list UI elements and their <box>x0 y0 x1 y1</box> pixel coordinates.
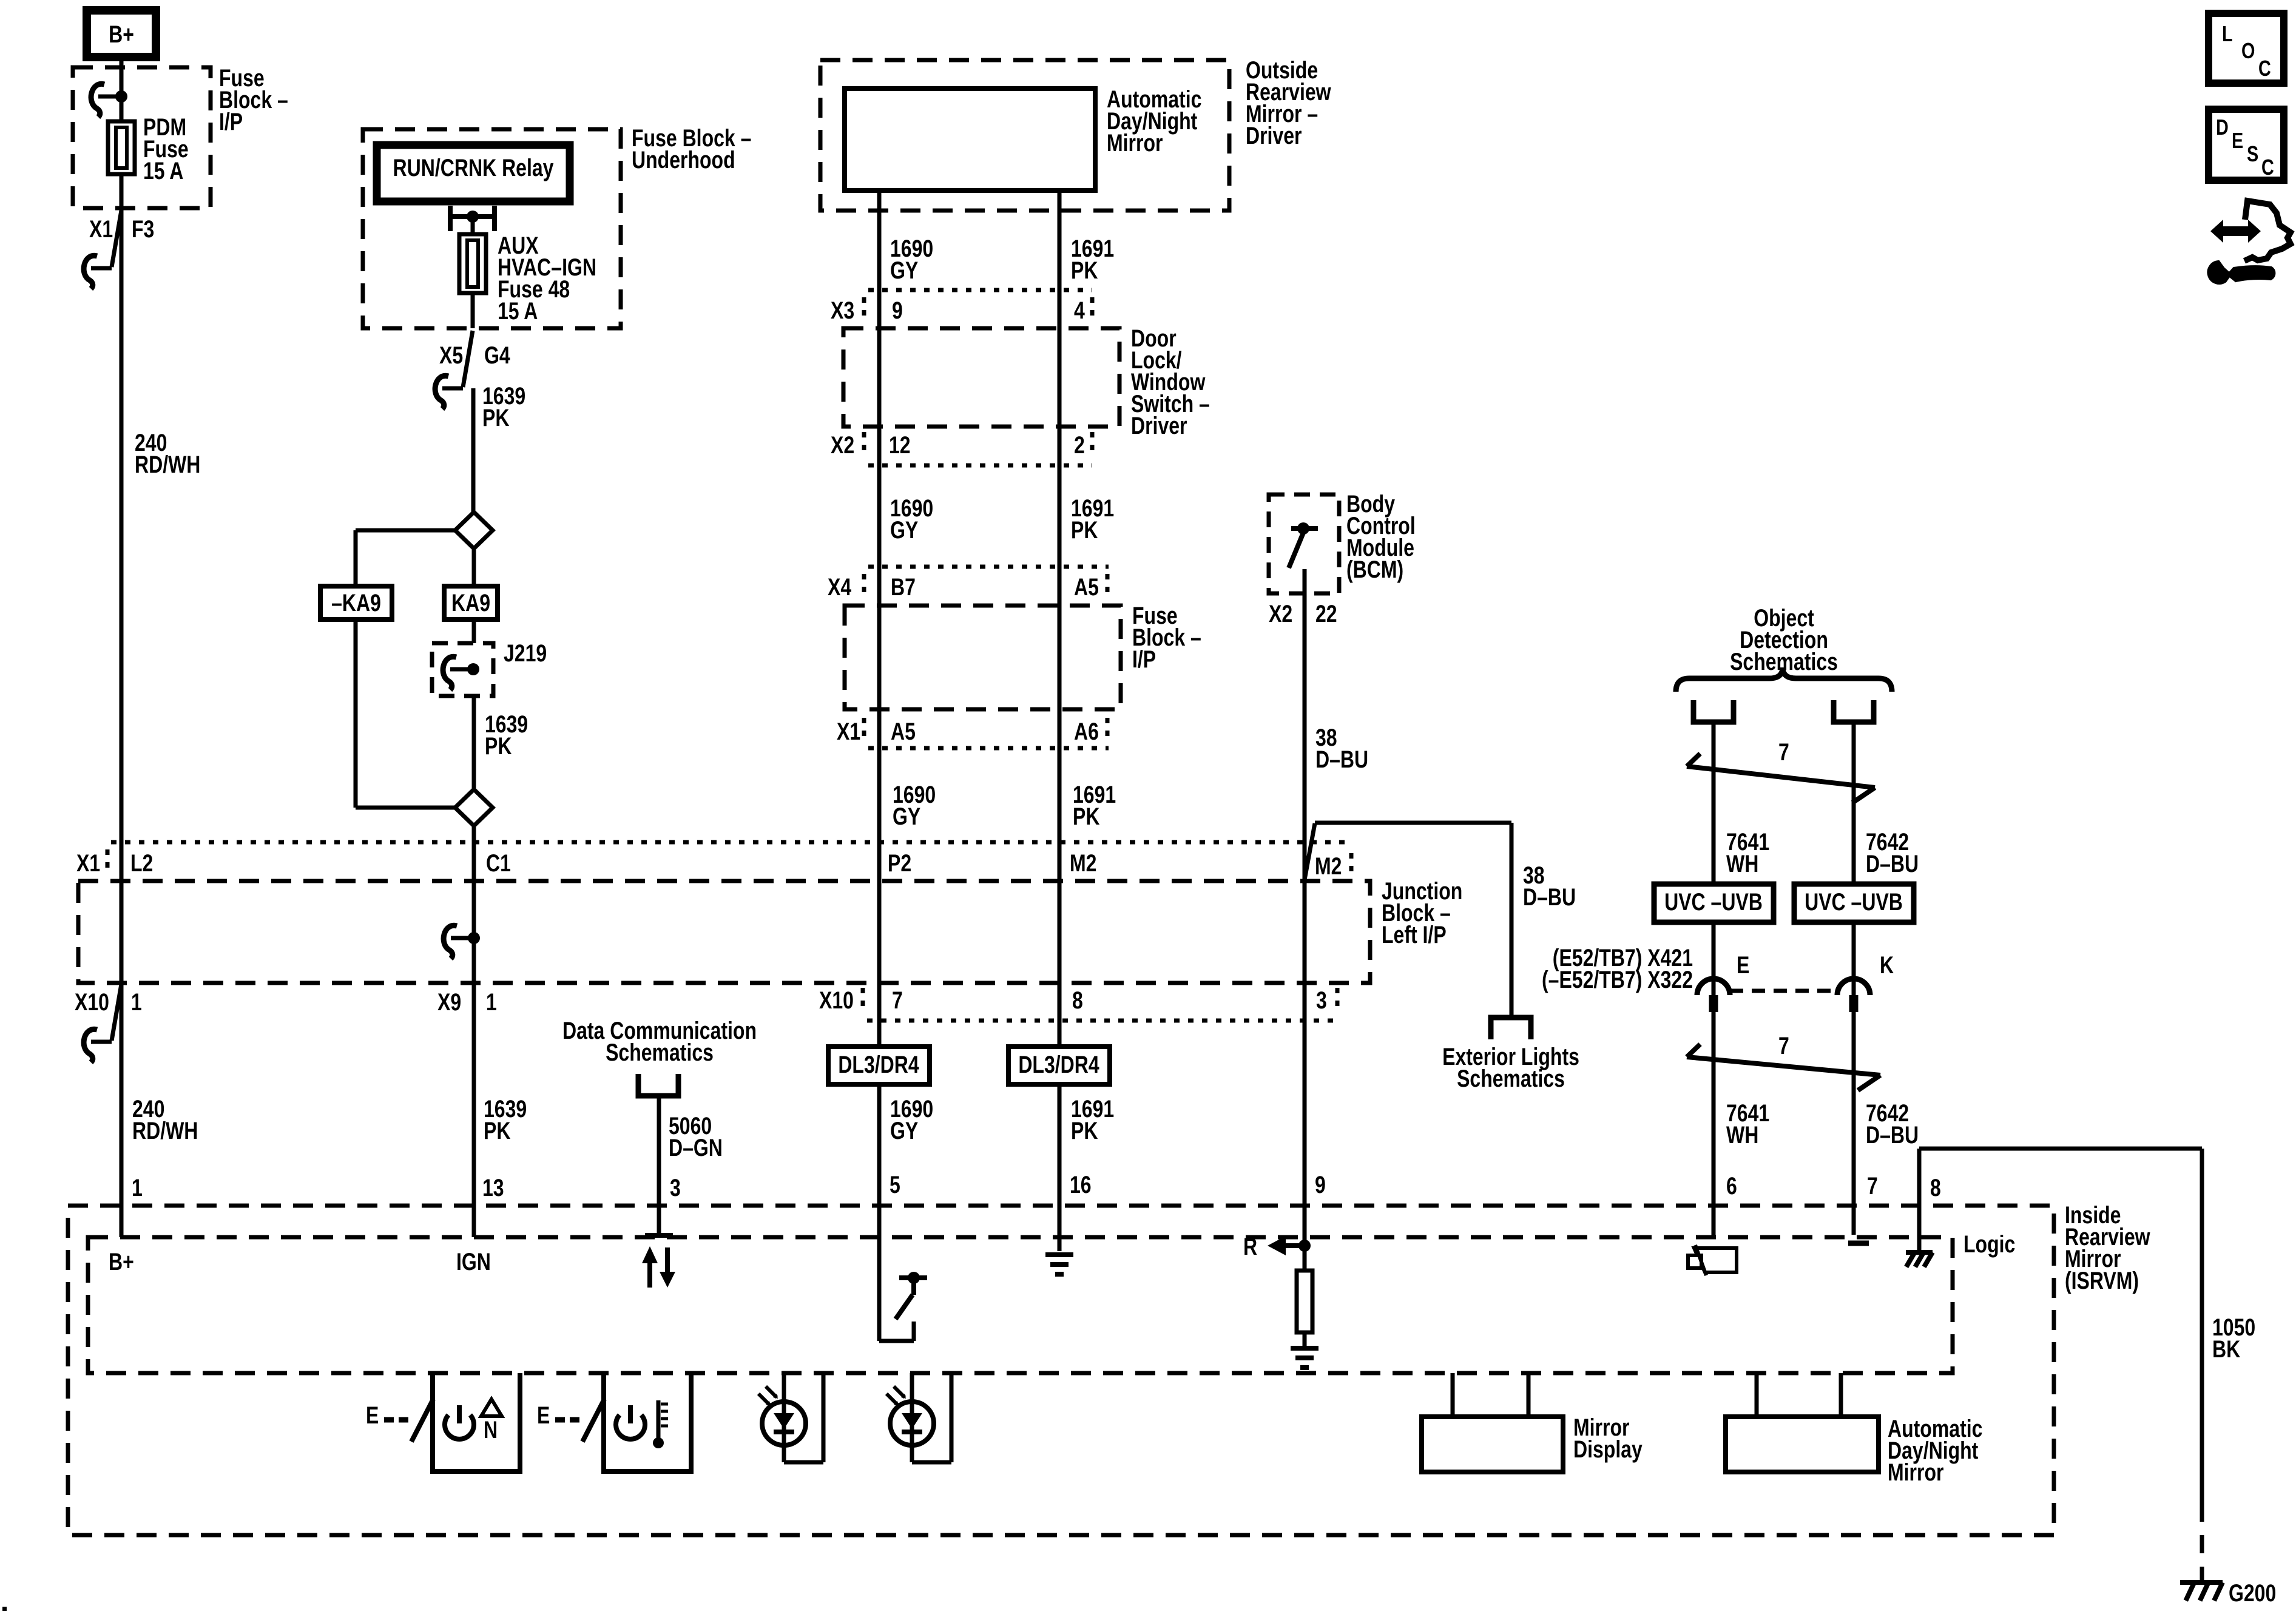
off-page connector 7641 top <box>1693 700 1734 722</box>
data link connector icon <box>2209 201 2291 283</box>
connector X3 labels <box>831 297 1085 324</box>
wire label 1690 GY 4 <box>890 1095 933 1144</box>
pin 13 label ISRVM <box>482 1174 504 1201</box>
resistor on wire 38 <box>1297 1246 1312 1348</box>
svg-text:22: 22 <box>1315 600 1337 627</box>
ground G200 <box>2180 1582 2223 1601</box>
svg-text:Driver: Driver <box>1246 122 1302 149</box>
label Fuse Block - Underhood <box>632 124 751 174</box>
pin 1 label ISRVM <box>132 1174 143 1201</box>
connector X2 dotted line <box>868 464 1092 468</box>
fuse block I/P 2 dashed box <box>845 606 1121 709</box>
pin stub E <box>1709 995 1718 1012</box>
brace object detection <box>1676 667 1892 692</box>
connector X10 dotted line <box>867 1019 1335 1023</box>
svg-text:B+: B+ <box>109 21 134 48</box>
connector arc E <box>1697 979 1838 995</box>
svg-text:Mirror: Mirror <box>1888 1459 1943 1486</box>
wire 1639 PK J219 to diamond <box>472 696 476 790</box>
svg-text:E: E <box>537 1402 550 1429</box>
svg-text:A5: A5 <box>1074 573 1099 601</box>
svg-text:RD/WH: RD/WH <box>135 451 200 478</box>
svg-text:GY: GY <box>893 803 920 830</box>
svg-text:15 A: 15 A <box>498 297 538 325</box>
photo sensor LED 1 <box>758 1373 823 1462</box>
splice J219 dashed box <box>432 643 493 696</box>
logic dashed box <box>88 1237 1953 1373</box>
svg-text:L: L <box>2222 21 2233 46</box>
photo sensor LED 2 <box>886 1373 951 1462</box>
connector X1 brackets <box>864 718 1107 743</box>
mirror display box <box>1422 1373 1563 1472</box>
label G200 <box>2229 1579 2276 1607</box>
ground below resistor <box>1291 1348 1319 1368</box>
switch power N day/night <box>366 1373 520 1471</box>
inline connector UVC-UVB right <box>1794 884 1914 922</box>
pin 5 label <box>890 1171 900 1198</box>
wire label 38 D-BU branch <box>1523 862 1576 911</box>
svg-text:7: 7 <box>1867 1172 1878 1200</box>
off-page connector data comm <box>638 1074 678 1096</box>
svg-text:O: O <box>2241 38 2255 63</box>
label Inside Rearview Mirror ISRVM <box>2065 1201 2150 1294</box>
label Object Detection Schematics <box>1730 604 1838 675</box>
svg-text:L2: L2 <box>130 849 153 877</box>
clip at X1 F3 <box>84 211 121 289</box>
svg-text:7: 7 <box>1778 738 1789 766</box>
wire 7642 D-BU lower <box>1852 1012 1856 1235</box>
wire label 1690 GY 1 <box>890 235 933 284</box>
svg-text:D–BU: D–BU <box>1315 746 1368 773</box>
wire 7641 WH upper <box>1712 722 1716 995</box>
label Fuse Block - I/P <box>219 64 288 135</box>
svg-text:A5: A5 <box>891 718 916 745</box>
bundle crossing 2 with hooks <box>1687 1044 1880 1090</box>
svg-text:IGN: IGN <box>456 1248 491 1275</box>
wire 1690 GY seg1 <box>877 191 882 1341</box>
connector X4 brackets <box>864 574 1107 599</box>
svg-text:13: 13 <box>482 1174 504 1201</box>
svg-text:Schematics: Schematics <box>1457 1065 1565 1092</box>
pin stub K <box>1849 995 1859 1012</box>
relay pin bracket with dot <box>450 206 495 231</box>
label Data Communication Schematics <box>562 1017 757 1066</box>
svg-text:X1: X1 <box>89 215 113 243</box>
connector X10 brackets <box>863 988 1337 1013</box>
svg-text:J219: J219 <box>504 640 547 667</box>
connector X3 dotted line <box>868 288 1092 292</box>
splice pack DL3/DR4 right <box>1008 1047 1110 1084</box>
label AUX HVAC-IGN Fuse 48 15 A <box>498 232 596 325</box>
svg-text:2: 2 <box>1074 431 1085 459</box>
pin 8 label <box>1930 1174 1941 1201</box>
svg-text:PK: PK <box>482 404 509 431</box>
relay contact KA9 box <box>444 548 498 643</box>
pin 3 label <box>670 1174 681 1201</box>
label IGN pin name <box>456 1248 491 1275</box>
svg-text:UVC –UVB: UVC –UVB <box>1664 888 1763 916</box>
ground wire 1691 <box>1045 1255 1073 1274</box>
camera icon wire 7641 <box>1688 1245 1737 1275</box>
connector X1 F3 labels <box>89 215 154 243</box>
wire label 240 RD/WH lower <box>132 1095 198 1144</box>
connector X1 A5 A6 labels <box>837 718 1099 745</box>
serial data arrows <box>642 1246 675 1288</box>
svg-text:WH: WH <box>1726 850 1758 877</box>
off-page connector 7642 top <box>1834 700 1874 722</box>
wire 240 RD/WH from B+ to ISRVM B+ pin <box>120 57 124 1237</box>
wire 1691 PK seg1 <box>1058 191 1062 1251</box>
clip at X10 row wire A <box>84 984 121 1062</box>
wire label 1691 PK 1 <box>1071 235 1114 284</box>
svg-text:A6: A6 <box>1074 718 1099 745</box>
wire label 1691 PK 4 <box>1071 1095 1114 1144</box>
svg-text:S: S <box>2247 141 2258 166</box>
svg-text:X2: X2 <box>831 431 854 459</box>
svg-text:UVC –UVB: UVC –UVB <box>1805 888 1903 916</box>
svg-text:G200: G200 <box>2229 1579 2276 1607</box>
svg-text:PK: PK <box>1071 257 1098 284</box>
BCM switch with dot <box>1289 522 1318 568</box>
svg-text:M2: M2 <box>1315 852 1342 880</box>
label Automatic Day/Night Mirror <box>1107 86 1201 157</box>
pin 6 label <box>1726 1172 1737 1200</box>
svg-text:B+: B+ <box>109 1248 134 1275</box>
svg-text:B7: B7 <box>891 573 916 601</box>
wire branch to -KA9 contact <box>356 530 455 808</box>
label E52/TB7 X421 X322 <box>1542 944 1693 993</box>
label E and K <box>1737 951 1894 979</box>
label 7 bundle 1 <box>1778 738 1789 766</box>
svg-text:PK: PK <box>1073 803 1099 830</box>
inline connector UVC-UVB left <box>1654 884 1774 922</box>
svg-text:X3: X3 <box>831 297 854 324</box>
label Logic <box>1963 1230 2015 1258</box>
svg-text:C: C <box>2261 155 2274 180</box>
inside rearview mirror dashed box <box>68 1206 2054 1535</box>
label Junction Block - Left I/P <box>1382 877 1462 948</box>
svg-text:X10: X10 <box>819 987 854 1014</box>
svg-text:I/P: I/P <box>1132 646 1156 673</box>
svg-text:(BCM): (BCM) <box>1346 556 1403 583</box>
svg-text:1: 1 <box>131 988 142 1016</box>
wire 7641 WH lower <box>1712 1012 1716 1238</box>
wire label 7641 WH upper <box>1726 828 1769 877</box>
label Door Lock/Window Switch - Driver <box>1131 325 1210 439</box>
label 7 bundle 2 <box>1778 1032 1789 1059</box>
connector X10 pin 1 labels wire A <box>75 988 142 1016</box>
label J219 <box>504 640 547 667</box>
connector C1 label <box>486 849 511 877</box>
label B+ pin name <box>109 1248 134 1275</box>
wire label 1639 PK upper <box>482 382 525 431</box>
wire label 1691 PK 2 <box>1071 495 1114 544</box>
label Body Control Module BCM <box>1346 490 1416 583</box>
wire label 1690 GY 2 <box>890 495 933 544</box>
svg-text:D: D <box>2216 115 2229 140</box>
svg-text:N: N <box>484 1416 498 1443</box>
bundle crossing 1 with hooks <box>1687 754 1875 803</box>
svg-text:PK: PK <box>1071 516 1098 544</box>
svg-text:3: 3 <box>670 1174 681 1201</box>
wire label 1050 BK <box>2212 1314 2255 1363</box>
splice dot and clip in fuse block <box>91 84 127 117</box>
svg-text:3: 3 <box>1316 987 1327 1014</box>
wire label 7642 D-BU upper <box>1866 828 1919 877</box>
label Fuse Block - I/P 2 <box>1132 602 1201 673</box>
outside rearview mirror dashed box <box>820 60 1229 211</box>
pin 16 label <box>1070 1171 1092 1198</box>
svg-text:K: K <box>1880 951 1894 979</box>
wire 5060 D-GN <box>645 1096 673 1235</box>
svg-text:5: 5 <box>890 1171 900 1198</box>
node diamond top <box>455 512 493 549</box>
automatic day/night mirror box 2 <box>1726 1373 1879 1472</box>
fuse block I/P dashed box <box>73 67 211 208</box>
wire 38 D-BU from BCM <box>1303 569 1307 1246</box>
connector X9 pin 1 labels <box>437 988 497 1016</box>
svg-text:X1: X1 <box>76 849 100 877</box>
wire 7642 D-BU upper <box>1852 722 1856 995</box>
connector P2 M2 labels <box>888 849 1096 877</box>
clip with dot wire B junction block <box>444 925 480 959</box>
node diamond bottom <box>455 789 493 826</box>
relay contact -KA9 box <box>320 586 392 619</box>
body control module dashed box <box>1269 495 1339 593</box>
relay RUN/CRNK box <box>377 145 570 201</box>
label Automatic Day/Night Mirror 2 <box>1888 1415 1982 1486</box>
svg-text:Underhood: Underhood <box>632 146 735 174</box>
svg-text:Logic: Logic <box>1963 1230 2015 1258</box>
svg-text:GY: GY <box>890 1117 918 1144</box>
svg-text:8: 8 <box>1072 987 1083 1014</box>
fuse block underhood dashed box <box>363 129 621 328</box>
svg-text:9: 9 <box>892 297 903 324</box>
label PDM Fuse 15 A <box>143 113 189 184</box>
connector X1 dotted line <box>868 746 1109 751</box>
svg-text:D–BU: D–BU <box>1866 850 1919 877</box>
svg-text:–KA9: –KA9 <box>331 589 381 616</box>
svg-text:PK: PK <box>1071 1117 1098 1144</box>
svg-text:I/P: I/P <box>219 108 243 135</box>
svg-text:F3: F3 <box>132 215 154 243</box>
arrow R and junction dot <box>1243 1233 1311 1260</box>
clip at X5 G4 <box>435 331 473 409</box>
svg-text:KA9: KA9 <box>451 589 490 616</box>
wire label 1690 GY 3 <box>893 781 936 830</box>
svg-text:X5: X5 <box>439 342 463 369</box>
minus terminal wire 7642 <box>1848 1241 1869 1246</box>
fuse PDM 15A <box>108 121 135 174</box>
wire label 5060 D-GN <box>669 1112 723 1161</box>
fuse AUX HVAC-IGN 48 <box>459 234 486 293</box>
svg-text:E: E <box>366 1402 379 1429</box>
svg-text:Schematics: Schematics <box>606 1039 714 1066</box>
connector M2 label wire E <box>1315 852 1351 880</box>
label Mirror Display <box>1573 1414 1643 1463</box>
wire logic pin 8 to G200 <box>1919 1149 2202 1580</box>
svg-text:DL3/DR4: DL3/DR4 <box>1018 1051 1099 1078</box>
wire branch to exterior lights <box>1305 823 1511 1018</box>
connector X1 L2 labels <box>76 849 153 877</box>
switch on wire 1690 in mirror <box>879 1272 927 1341</box>
connector X4 labels <box>828 573 1099 601</box>
svg-text:D–BU: D–BU <box>1866 1121 1919 1149</box>
connector arc K <box>1837 979 1870 995</box>
wire label 240 RD/WH upper <box>135 429 200 478</box>
wire relay to fuse 48 <box>471 217 475 234</box>
off-page connector exterior lights <box>1491 1018 1531 1039</box>
svg-text:16: 16 <box>1070 1171 1092 1198</box>
svg-text:7: 7 <box>1778 1032 1789 1059</box>
connector X3 brackets <box>864 297 1092 323</box>
svg-text:9: 9 <box>1315 1171 1326 1198</box>
chassis ground logic <box>1906 1252 1933 1267</box>
svg-text:8: 8 <box>1930 1174 1941 1201</box>
splice pack DL3/DR4 left <box>828 1047 930 1084</box>
svg-text:D–GN: D–GN <box>669 1134 723 1161</box>
connector X2 22 labels <box>1269 600 1337 627</box>
door lock window switch dashed box <box>843 328 1119 427</box>
svg-text:X10: X10 <box>75 988 109 1016</box>
power symbol B+ box <box>87 10 156 57</box>
connector X5 G4 labels <box>439 342 510 369</box>
svg-text:X1: X1 <box>837 718 860 745</box>
connector row1 brackets <box>106 849 110 875</box>
svg-text:PK: PK <box>485 732 512 760</box>
pin 9 label <box>1315 1171 1326 1198</box>
connector dotted line row 1 <box>111 840 1352 845</box>
svg-text:(ISRVM): (ISRVM) <box>2065 1267 2139 1294</box>
svg-text:E: E <box>1737 951 1749 979</box>
svg-text:6: 6 <box>1726 1172 1737 1200</box>
wire label 7641 WH lower <box>1726 1099 1769 1149</box>
svg-text:4: 4 <box>1074 297 1085 324</box>
wire 1639 PK fuse to diamond <box>473 293 473 513</box>
svg-text:7: 7 <box>892 987 903 1014</box>
wire label 1691 PK 3 <box>1073 781 1116 830</box>
svg-text:M2: M2 <box>1070 849 1096 877</box>
svg-text:Display: Display <box>1573 1436 1643 1463</box>
label Exterior Lights Schematics <box>1442 1043 1579 1092</box>
wire label 7642 D-BU lower <box>1866 1099 1919 1149</box>
svg-text:1: 1 <box>486 988 497 1016</box>
svg-text:X9: X9 <box>437 988 461 1016</box>
connector X4 dotted line <box>868 565 1109 569</box>
wire label 38 D-BU upper <box>1315 724 1368 773</box>
svg-text:GY: GY <box>890 257 918 284</box>
svg-text:G4: G4 <box>484 342 510 369</box>
connector X2 brackets <box>864 432 1092 457</box>
svg-text:RUN/CRNK Relay: RUN/CRNK Relay <box>393 154 554 181</box>
artifact dot <box>2 1607 7 1611</box>
svg-text:(–E52/TB7) X322: (–E52/TB7) X322 <box>1542 966 1693 993</box>
svg-text:P2: P2 <box>888 849 911 877</box>
connector X2 labels <box>831 431 1085 459</box>
svg-text:C: C <box>2258 56 2271 81</box>
svg-text:DL3/DR4: DL3/DR4 <box>838 1051 919 1078</box>
svg-text:WH: WH <box>1726 1121 1758 1149</box>
svg-text:12: 12 <box>889 431 911 459</box>
svg-text:Left I/P: Left I/P <box>1382 921 1447 948</box>
svg-text:X2: X2 <box>1269 600 1292 627</box>
pin 7 label <box>1867 1172 1878 1200</box>
splice J219 clip and dot <box>443 657 479 690</box>
wire label 1639 PK lower <box>484 1095 527 1144</box>
junction block left I/P dashed box <box>78 881 1370 983</box>
svg-text:Mirror: Mirror <box>1107 129 1163 157</box>
wire label 1639 PK middle <box>485 711 528 760</box>
label Outside Rearview Mirror - Driver <box>1246 56 1331 149</box>
connector X10 labels wires C D E <box>819 987 1327 1014</box>
svg-text:BK: BK <box>2212 1335 2240 1363</box>
svg-text:1: 1 <box>132 1174 143 1201</box>
svg-text:D–BU: D–BU <box>1523 883 1576 911</box>
DESC box <box>2209 109 2284 180</box>
LOC box <box>2209 13 2284 83</box>
switch power temperature <box>537 1373 691 1471</box>
svg-text:C1: C1 <box>486 849 511 877</box>
svg-text:Driver: Driver <box>1131 412 1187 439</box>
svg-text:RD/WH: RD/WH <box>132 1117 198 1144</box>
svg-text:X4: X4 <box>828 573 851 601</box>
svg-text:E: E <box>2232 128 2243 153</box>
svg-text:GY: GY <box>890 516 918 544</box>
svg-text:15 A: 15 A <box>143 157 183 184</box>
automatic day/night mirror box <box>845 89 1095 191</box>
wire 1639 PK diamond to ISRVM <box>472 826 476 1237</box>
svg-text:PK: PK <box>484 1117 510 1144</box>
